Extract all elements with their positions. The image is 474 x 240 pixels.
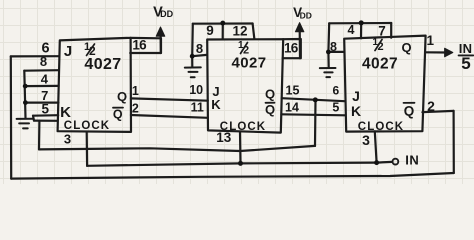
svg-text:14: 14 [285,101,299,115]
wire pin12 stub [253,24,255,39]
wire Qbar3 to corner [422,111,453,112]
svg-text:8: 8 [330,40,337,54]
terminal IN circle [393,159,399,165]
wire pin2 Qbar1 to K2 [131,115,208,118]
wire pin7 U1 [25,101,58,103]
wire pin13 drop U2 [239,132,242,163]
wire Q2 feedback riser [314,100,317,146]
svg-text:1: 1 [132,84,139,98]
wire pin3 U1 drop [86,132,89,166]
wire pin7 stub [390,23,392,38]
half fraction U3 [373,37,384,53]
wire pin9 stub [222,23,224,39]
power Vdd label U1 [153,4,173,20]
wire Vdd riser U1 [160,35,162,53]
svg-text:1: 1 [427,33,435,48]
svg-text:Q: Q [117,89,127,104]
svg-text:5: 5 [41,102,49,117]
power Vdd label U2 [293,5,312,21]
wire pins 4-7 top U3 [329,22,391,24]
wire 9/12 gnd drop [191,24,194,57]
wire pin4 stub [360,23,362,39]
arrowhead out [445,48,453,57]
svg-text:Q: Q [265,102,275,117]
ground U2 [185,67,201,77]
Qbar overbar U3 [404,102,415,104]
wire pin3 drop U3 [375,131,377,162]
wire to IN terminal [377,161,392,164]
wire pin4 U1 [25,85,59,87]
svg-text:Q: Q [113,108,123,122]
svg-text:4027: 4027 [362,56,398,73]
wire feedback left vertical [10,56,13,178]
wire K1 feedback drop [38,121,41,150]
svg-text:3: 3 [64,132,71,147]
wire Vdd riser U2 [299,30,301,58]
wire gnd stem U3 [327,52,330,68]
svg-text:4027: 4027 [84,56,121,73]
svg-text:K: K [60,104,71,121]
node clock bus pin3 U3 [374,160,379,165]
svg-text:4: 4 [348,23,355,37]
svg-text:DD: DD [300,11,312,21]
svg-text:5: 5 [461,54,470,73]
wire gnd drop U1 [24,71,25,118]
wire Q2 feedback horizontal [39,146,315,151]
svg-text:6: 6 [332,84,339,98]
svg-text:4027: 4027 [232,55,267,72]
Vdd arrowhead U1 [156,27,165,36]
node pin8 gnd U3 [326,50,331,55]
svg-text:5: 5 [332,101,339,115]
ground U1 [17,119,34,129]
Qbar overbar U1 [113,107,123,109]
svg-text:K: K [211,97,221,112]
op IC U1 box [58,38,131,132]
svg-text:16: 16 [132,38,147,53]
wire pin1 Q3 out [425,51,446,53]
svg-text:16: 16 [284,40,299,55]
svg-text:8: 8 [196,41,203,56]
half fraction U1 [84,41,96,58]
wire pin1 Q1 to J2 [131,98,208,100]
svg-text:7: 7 [378,24,386,39]
wire pin8 U1 [24,69,59,72]
wire feedback right vertical [453,111,455,173]
svg-text:8: 8 [40,54,47,69]
op IC U3 box [344,36,425,132]
node IN/5 output label [459,41,474,73]
wire 4/7 gnd drop [327,23,330,52]
wire pin14 Qbar2 to K3 [281,114,345,115]
svg-text:Q: Q [404,104,415,119]
svg-text:Q: Q [401,40,411,55]
node pin4 gnd U1 [23,84,28,89]
IC U2 pin16 stub box [283,39,301,58]
wire pin6 J1 [11,55,60,57]
svg-text:7: 7 [41,88,48,103]
node pin4 U3 [359,20,364,25]
labels U2 [189,23,299,145]
half fraction U2 [238,40,249,57]
svg-text:CLOCK: CLOCK [64,120,110,132]
wire feedback bottom [11,173,454,179]
IC U1 pin16 stub box [130,38,161,53]
svg-text:9: 9 [206,23,214,38]
svg-text:10: 10 [189,83,203,97]
svg-text:J: J [352,88,360,104]
svg-text:3: 3 [362,132,370,148]
svg-text:DD: DD [160,9,173,19]
svg-text:IN: IN [405,153,419,168]
node pin8 gnd U2 [190,54,195,59]
ground U3 [320,68,336,77]
svg-text:CLOCK: CLOCK [220,121,266,133]
svg-text:11: 11 [191,100,204,114]
wire gnd stem U2 [191,56,193,67]
svg-text:2: 2 [427,98,435,114]
node pin7 gnd U1 [23,100,28,105]
Qbar overbar U2 [266,102,275,104]
svg-text:J: J [64,43,72,60]
svg-text:2: 2 [132,101,139,115]
svg-text:15: 15 [286,84,300,98]
labels U1 [40,38,147,147]
svg-text:K: K [351,103,361,119]
wire clock bus [87,163,377,166]
node Q2 J3 feedback [313,97,318,102]
wire K1 corner down [33,116,34,121]
wire pins 9-12 top U2 [193,22,253,24]
Vdd arrowhead U2 [295,23,304,32]
node clock bus pin13 [238,161,243,166]
op IC U2 box [207,39,283,132]
wire pin15 Q2 to J3 [282,98,345,101]
svg-text:4: 4 [41,72,49,87]
svg-text:12: 12 [232,24,247,39]
wire pin5 K1 [33,114,58,117]
wire pin8 U3 [328,51,343,53]
wire K1 stub back to box [34,119,57,121]
node pin9 U2 [220,21,225,26]
graph paper grid [0,0,474,184]
svg-text:Q: Q [265,87,275,102]
wire pin8 U2 [192,55,207,56]
labels U3 [330,23,435,148]
